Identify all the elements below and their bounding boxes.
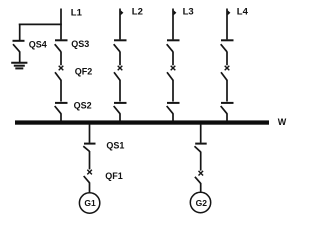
breaker G2 branch [195,171,203,193]
wire L2 incoming [119,9,121,40]
disconnector QS1 [83,144,95,170]
svg-text:L3: L3 [183,6,194,17]
svg-text:L2: L2 [132,6,143,17]
svg-text:QF2: QF2 [75,67,93,77]
arrow L3 [174,10,177,15]
wire branch to QS4 [19,23,62,25]
svg-text:QS3: QS3 [71,39,89,49]
disconnector L2 bottom [114,103,127,121]
wire L3 incoming [172,9,174,40]
generator G2 [190,192,210,212]
breaker L3 [167,66,175,102]
breaker QF2 [55,66,63,102]
generator G1 [79,193,99,213]
breaker L2 [114,66,122,102]
breaker QF1 [84,170,92,193]
disconnector L3 bottom [167,103,180,121]
disconnector L4 bottom [221,103,234,121]
svg-text:L4: L4 [237,6,249,17]
breaker L4 [221,66,229,102]
svg-text:W: W [278,117,287,127]
disconnector G2 branch [195,144,207,171]
disconnector QS2 [55,103,68,121]
disconnector L3 top [167,40,180,65]
svg-text:QS2: QS2 [74,100,92,110]
svg-text:QS1: QS1 [106,141,124,151]
disconnector L2 top [114,40,127,65]
svg-text:QS4: QS4 [29,39,47,49]
svg-text:QF1: QF1 [105,171,123,181]
wire G2 branch [200,124,202,143]
disconnector QS4 [13,24,25,63]
svg-text:L1: L1 [71,7,83,18]
wire G1 branch [89,124,91,143]
busbar W [15,120,269,124]
wire L4 incoming [226,9,228,40]
arrow L2 [121,10,124,15]
wire L1 incoming [60,9,62,40]
ground [11,63,27,69]
arrow L4 [228,10,231,15]
svg-text:G1: G1 [84,198,96,208]
disconnector L4 top [221,40,234,65]
disconnector QS3 [55,40,68,65]
svg-text:G2: G2 [196,198,208,208]
